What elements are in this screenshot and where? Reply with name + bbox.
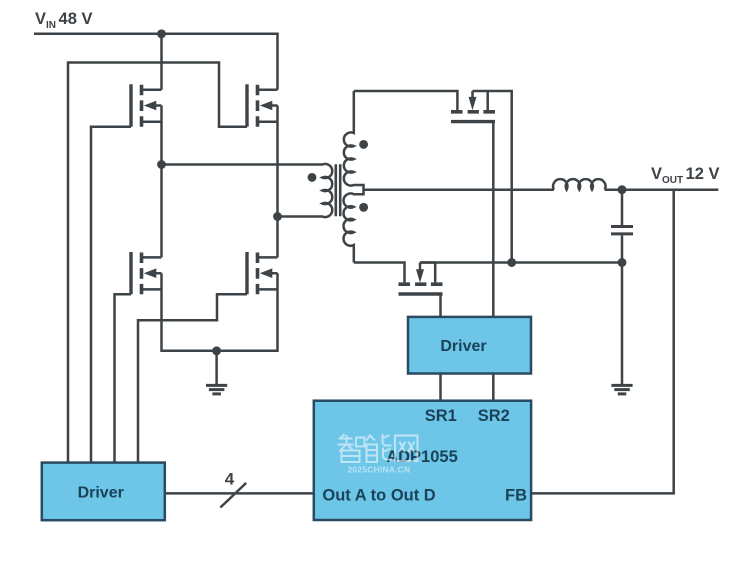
node phase A	[157, 160, 166, 169]
wire SR2 gate lead down to Driver	[492, 122, 495, 317]
node secondary bottom polarity dot	[359, 203, 368, 212]
wire gate drive D (Driver to QD gate)	[138, 294, 247, 462]
wire VIN top rail	[34, 34, 278, 90]
wire SR1 gate lead down to Driver	[439, 294, 442, 317]
wire FB feedback from VOUT to ADP1055	[531, 190, 674, 494]
transformer T1 core	[336, 164, 340, 216]
inductor L1 output inductor	[553, 179, 606, 190]
svg-text:Out A to Out D: Out A to Out D	[322, 486, 435, 504]
wire secondary top lead to SR2 drain	[354, 91, 458, 110]
transistor SR1 bottom synchronous rectifier MOSFET	[399, 263, 443, 295]
wire gate drive C (Driver to QC gate)	[115, 294, 132, 462]
wire capacitor to ground	[621, 263, 624, 385]
wire inductor to VOUT terminal	[605, 188, 719, 191]
node primary polarity dot	[308, 173, 317, 182]
wire Driver to ADP1055 control bus	[165, 492, 314, 495]
svg-text:ADP1055: ADP1055	[386, 448, 458, 466]
node L-C output node	[618, 185, 627, 194]
IC U1 ADP1055 digital controller block	[314, 401, 531, 520]
wire SR2 control (Driver to ADP1055 SR2)	[492, 374, 495, 401]
node secondary top polarity dot	[359, 140, 368, 149]
IC U2 gate driver block (left)	[42, 463, 165, 521]
wire QA drain from rail	[160, 34, 163, 90]
wire center tap to inductor	[364, 188, 554, 191]
transformer T1 primary winding	[162, 164, 333, 217]
svg-text:Driver: Driver	[440, 338, 486, 355]
transistor QD bottom-right MOSFET	[247, 252, 278, 294]
transistor SR2 top synchronous rectifier MOSFET	[451, 91, 512, 263]
transistor QA top-left MOSFET	[131, 84, 162, 126]
svg-text:SR2: SR2	[478, 407, 510, 425]
wire SR rail to output capacitor	[420, 261, 622, 264]
transistor QC bottom-left MOSFET	[131, 252, 162, 294]
transformer T1 secondary winding with center tap	[344, 91, 364, 263]
watermark 智能网	[338, 434, 418, 462]
wire secondary bottom lead to SR1 drain	[354, 263, 405, 283]
svg-text:VOUT12 V: VOUT12 V	[651, 165, 720, 186]
svg-text:2025CHINA.CN: 2025CHINA.CN	[348, 464, 411, 474]
wire gate drive B (Driver to QA gate)	[91, 127, 131, 463]
node SR rail junction	[507, 258, 516, 267]
node capacitor ground node	[618, 258, 627, 267]
node phase B	[273, 212, 282, 221]
IC U3 SR driver block (right)	[408, 317, 531, 374]
wire bus slash	[220, 483, 246, 508]
wire right bridge leg (QB source to QD drain)	[276, 106, 279, 258]
svg-text:FB: FB	[505, 486, 527, 504]
svg-text:VIN48 V: VIN48 V	[35, 10, 92, 31]
wire gate drive A (Driver to QB gate)	[68, 63, 247, 463]
svg-text:4: 4	[225, 470, 235, 489]
wire SR1 control (Driver to ADP1055 SR1)	[439, 374, 442, 401]
ground bridge ground symbol	[206, 351, 227, 394]
wire left bridge leg (QA source to QC drain)	[160, 106, 163, 258]
node VIN junction	[157, 29, 166, 38]
node ground rail junction	[212, 346, 221, 355]
svg-text:Driver: Driver	[78, 484, 124, 501]
wire QC QD sources to bridge ground rail	[162, 273, 278, 351]
svg-text:SR1: SR1	[425, 407, 457, 425]
capacitor C1 output capacitor	[611, 190, 633, 263]
ground output ground symbol	[611, 385, 632, 394]
transistor QB top-right MOSFET	[247, 84, 278, 126]
